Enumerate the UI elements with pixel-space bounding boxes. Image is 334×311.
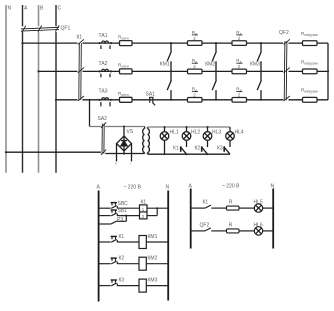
resistor Rd/2 r3a <box>188 98 203 103</box>
svg-text:C: C <box>58 6 62 12</box>
svg-text:R: R <box>229 200 233 206</box>
rail N right ladder <box>272 189 274 249</box>
svg-text:КМ3: КМ3 <box>148 277 158 283</box>
rectifier VS <box>117 136 132 151</box>
node row2-B <box>37 70 39 72</box>
rung5 wire К3 <box>99 285 111 287</box>
resistor R rung HL5 <box>227 206 240 210</box>
svg-text:HL5: HL5 <box>254 200 263 206</box>
resistor Rd/2 r2b <box>232 69 247 74</box>
svg-text:A: A <box>24 6 28 12</box>
wire VS bottom lead <box>123 151 125 154</box>
svg-text:N: N <box>271 183 275 189</box>
contact КМ3 lower <box>260 71 262 80</box>
CT ТА2 <box>101 69 110 77</box>
wire row3 branch down <box>89 100 91 127</box>
bus C <box>55 5 57 26</box>
svg-text:КМ1: КМ1 <box>160 62 170 68</box>
svg-text:К2: К2 <box>119 256 125 262</box>
svg-text:HL4: HL4 <box>235 130 244 136</box>
rung2 wire SB1 <box>99 215 111 217</box>
button SB1 <box>111 210 118 216</box>
breaker QF1 <box>21 25 59 32</box>
resistor Rload row2 <box>303 69 318 74</box>
svg-text:ТА1: ТА1 <box>99 33 108 39</box>
CT ТА3 <box>101 98 110 107</box>
wire SA2 to VS top <box>105 126 144 128</box>
svg-text:Rнагрузки: Rнагрузки <box>301 88 318 94</box>
svg-text:ТА3: ТА3 <box>99 88 108 94</box>
svg-text:К1: К1 <box>203 200 209 206</box>
svg-text:К3: К3 <box>217 145 223 151</box>
wire VS top lead <box>123 127 125 137</box>
wire row1 phase A <box>23 42 78 44</box>
rail N left ladder <box>167 191 169 301</box>
label Rd/2 r1b <box>236 30 241 41</box>
node row1-A <box>21 42 23 44</box>
resistor Rd/2 r2a <box>188 69 203 74</box>
svg-text:К3: К3 <box>119 277 125 283</box>
node c3r1 <box>260 42 262 44</box>
node K1 join <box>156 207 158 209</box>
svg-text:R: R <box>229 223 233 229</box>
lamp HL2 <box>182 127 191 147</box>
svg-text:QF1: QF1 <box>61 26 71 32</box>
svg-text:К1: К1 <box>173 145 179 151</box>
contact K2 lamp <box>202 146 208 154</box>
contact K1 right <box>205 205 211 208</box>
svg-text:КМ2: КМ2 <box>148 256 158 262</box>
node c3r2 <box>260 70 262 72</box>
rung wire К1-HL5 <box>191 207 205 209</box>
node c1r1 <box>170 42 172 44</box>
node branch <box>88 99 90 101</box>
label Rd/2 r3a <box>192 87 197 98</box>
node c3r3 <box>260 99 262 101</box>
svg-text:Rсети: Rсети <box>118 91 129 97</box>
svg-text:К1: К1 <box>141 200 147 206</box>
svg-text:К1: К1 <box>77 35 83 41</box>
node star <box>327 70 329 72</box>
contact КМ3 upper <box>260 43 262 52</box>
node c2r2 <box>215 70 217 72</box>
svg-text:QF2: QF2 <box>200 223 210 229</box>
svg-text:B: B <box>40 6 44 12</box>
svg-text:Rнагрузки: Rнагрузки <box>301 31 318 37</box>
wire N to SA2 bottom <box>6 151 101 153</box>
svg-text:КМ3: КМ3 <box>250 62 260 68</box>
CT ТА1 <box>101 41 110 49</box>
resistor Rseti row2 <box>120 69 133 74</box>
svg-text:~ 220 В: ~ 220 В <box>124 185 142 191</box>
svg-text:SB1: SB1 <box>118 208 128 214</box>
wire КМ1 to N <box>146 241 168 243</box>
node N bottom <box>5 151 7 153</box>
svg-text:К2: К2 <box>195 145 201 151</box>
wire lamp bottom rail <box>148 153 231 155</box>
svg-text:К1: К1 <box>119 234 125 240</box>
wire SA2 to transformer bottom <box>105 153 144 155</box>
rung1 wire SBC <box>99 207 111 209</box>
label Rd/2 r2b <box>236 58 241 69</box>
contact К3 rung <box>111 280 118 286</box>
contact К1 rung <box>111 236 118 242</box>
breaker QF2 <box>284 39 290 101</box>
svg-text:Rнагрузки: Rнагрузки <box>301 59 318 65</box>
svg-text:N: N <box>166 185 170 191</box>
svg-text:КМ1: КМ1 <box>148 234 158 240</box>
wire star point <box>327 43 329 100</box>
bus B <box>38 5 40 26</box>
svg-text:SA2: SA2 <box>98 116 108 122</box>
contact КМ1 upper <box>170 43 172 52</box>
svg-text:2: 2 <box>193 36 196 41</box>
bus N <box>5 5 7 173</box>
lamp HL3 <box>203 127 212 147</box>
wire VS dc lead plus <box>116 144 118 162</box>
resistor R rung HL6 <box>227 229 240 233</box>
rail A left ladder <box>98 191 100 302</box>
svg-text:VS: VS <box>127 129 134 135</box>
wire to SA2 top <box>90 126 101 128</box>
rung4 wire К2 <box>99 263 111 265</box>
relay K1 box <box>140 205 148 219</box>
wire K1 cell1 to N <box>147 207 168 209</box>
svg-text:HL1: HL1 <box>170 130 179 136</box>
resistor Rd/2 r1b <box>232 41 247 46</box>
rung wire QF2-HL6 <box>191 230 205 232</box>
svg-text:SA1: SA1 <box>146 91 156 97</box>
svg-text:A: A <box>189 183 193 189</box>
svg-text:2: 2 <box>193 93 196 98</box>
svg-text:HL6: HL6 <box>254 223 263 229</box>
svg-text:HL3: HL3 <box>212 130 221 136</box>
contact КМ2 lower <box>215 71 217 80</box>
svg-text:SBC: SBC <box>118 201 129 207</box>
label Rd/2 r3b <box>236 87 241 98</box>
label Rd/2 r1a <box>192 30 197 41</box>
node P3 join <box>125 215 127 217</box>
lamp HL1 <box>160 127 169 154</box>
coil КМ1 <box>139 236 146 249</box>
wire КМ3 to N <box>146 285 168 287</box>
svg-text:Р3: Р3 <box>117 217 123 223</box>
node c2r3 <box>215 99 217 101</box>
wire КМ2 to N <box>146 263 168 265</box>
svg-text:QF2: QF2 <box>279 30 289 36</box>
label Rd/2 r2a <box>192 58 197 69</box>
svg-text:КМ2: КМ2 <box>205 62 215 68</box>
coil КМ2 <box>139 257 146 270</box>
contact K1 lamp <box>181 146 187 154</box>
svg-text:2: 2 <box>238 36 241 41</box>
bus A <box>22 5 24 26</box>
node row3-C <box>55 99 57 101</box>
svg-text:N: N <box>8 6 12 12</box>
transformer TV primary <box>143 127 145 154</box>
contact КМ2 upper <box>215 43 217 52</box>
rung3 wire К1 <box>99 241 111 243</box>
lamp HL6 <box>239 227 273 235</box>
resistor Rseti row1 <box>120 41 133 46</box>
node c1r3 <box>170 99 172 101</box>
svg-text:2: 2 <box>238 64 241 69</box>
button SBC <box>111 203 118 209</box>
svg-text:HL2: HL2 <box>191 130 200 136</box>
svg-text:2: 2 <box>193 64 196 69</box>
svg-text:−: − <box>130 161 133 166</box>
svg-text:ТА2: ТА2 <box>99 61 108 67</box>
node c2r1 <box>215 42 217 44</box>
contact QF2 right <box>205 228 211 231</box>
svg-text:+: + <box>115 161 118 166</box>
wire lamp top rail <box>148 126 231 128</box>
rail A right ladder <box>190 189 192 249</box>
resistor Rseti row3 <box>120 97 133 102</box>
contact K3 lamp <box>224 146 230 154</box>
contact К2 rung <box>111 258 118 264</box>
svg-text:~ 220 В: ~ 220 В <box>222 183 240 189</box>
resistor Rd/2 r1a <box>188 41 203 46</box>
contact КМ1 lower <box>170 71 172 80</box>
switch SA2 <box>101 122 106 155</box>
transformer TV secondary <box>148 127 150 154</box>
svg-text:A: A <box>97 185 101 191</box>
switch SA1 <box>149 97 155 105</box>
svg-text:Rсети: Rсети <box>118 63 129 69</box>
resistor Rload row1 <box>303 41 318 46</box>
wire row2 phase B <box>39 70 78 72</box>
resistor Rload row3 <box>303 97 318 102</box>
lamp HL4 <box>226 127 235 147</box>
contact P3 seal <box>99 223 111 225</box>
coil КМ3 <box>139 279 146 292</box>
lamp HL5 <box>239 204 273 212</box>
svg-text:Rсети: Rсети <box>118 34 129 40</box>
resistor Rd/2 r3b <box>232 98 247 103</box>
node c1r2 <box>170 70 172 72</box>
wire VS dc lead minus <box>131 144 133 162</box>
wire K1 cell2 to join <box>147 215 157 217</box>
svg-text:2: 2 <box>238 93 241 98</box>
wire row3 phase C <box>56 99 77 101</box>
contactor K1 <box>78 39 84 101</box>
